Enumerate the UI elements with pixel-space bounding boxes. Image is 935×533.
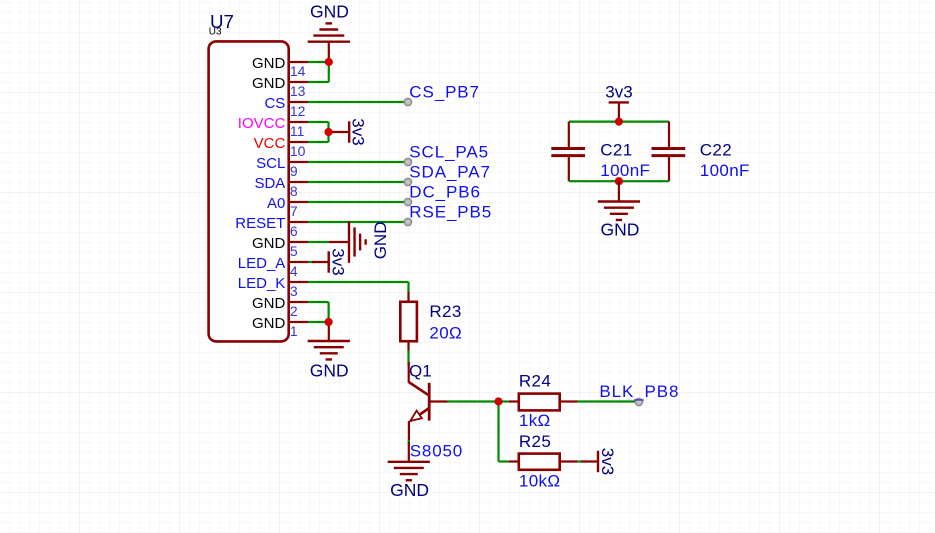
svg-text:VCC: VCC	[254, 135, 286, 152]
node SCL_PA5	[404, 142, 489, 165]
pin 13 GND	[252, 75, 308, 99]
svg-text:LED_A: LED_A	[238, 255, 286, 272]
svg-text:R24: R24	[519, 372, 551, 391]
wire pin2 GND	[308, 302, 329, 322]
wire pin14 to junction	[308, 61, 329, 63]
C22 value	[700, 161, 750, 180]
svg-text:SDA_PA7: SDA_PA7	[409, 162, 491, 181]
svg-text:CS: CS	[264, 95, 285, 112]
power 3v3 at LED_A	[312, 248, 348, 275]
svg-text:8: 8	[290, 183, 298, 199]
C21 designator	[600, 141, 632, 160]
svg-text:C22: C22	[700, 141, 732, 160]
pin 14 GND	[252, 55, 308, 79]
svg-text:GND: GND	[252, 295, 286, 312]
wire cap top rail	[569, 120, 669, 122]
svg-text:LED_K: LED_K	[238, 275, 286, 292]
R23 designator	[429, 302, 461, 321]
svg-text:RSE_PB5: RSE_PB5	[409, 202, 492, 221]
svg-text:RESET: RESET	[235, 215, 285, 232]
svg-text:3v3: 3v3	[598, 448, 617, 475]
R24 designator	[519, 372, 551, 391]
R25 designator	[519, 432, 551, 451]
C22 designator	[700, 141, 732, 160]
svg-text:CS_PB7: CS_PB7	[409, 82, 480, 101]
svg-text:100nF: 100nF	[600, 161, 650, 180]
svg-text:GND: GND	[390, 480, 429, 500]
svg-text:20Ω: 20Ω	[429, 323, 462, 342]
capacitor C21	[551, 122, 585, 182]
svg-text:GND: GND	[252, 75, 286, 92]
pin 12 CS	[264, 95, 308, 119]
node SDA_PA7	[404, 162, 491, 185]
C21 value	[600, 161, 650, 180]
wire Q1 base to junction	[447, 400, 499, 402]
transistor Q1	[409, 362, 448, 442]
resistor R24	[509, 394, 578, 411]
svg-text:1kΩ: 1kΩ	[519, 411, 551, 430]
node BLK_PB8	[599, 382, 679, 405]
junction cap bottom	[615, 177, 623, 185]
R23 value	[429, 323, 462, 342]
R24 value	[519, 411, 551, 430]
ground GND right symbol	[329, 221, 390, 263]
wire pin1 GND	[308, 321, 329, 323]
wire junction down to R25	[499, 402, 509, 462]
svg-text:7: 7	[290, 203, 298, 219]
wire RSE_PB5	[308, 221, 405, 223]
svg-text:11: 11	[290, 123, 305, 139]
wire R23 to Q1	[407, 351, 409, 366]
pin 2 GND	[252, 295, 308, 319]
wire SCL_PA5	[308, 161, 405, 163]
svg-text:GND: GND	[371, 222, 390, 260]
svg-text:1: 1	[290, 323, 298, 339]
svg-text:DC_PB6: DC_PB6	[409, 182, 481, 201]
svg-text:GND: GND	[252, 55, 286, 72]
svg-text:SCL: SCL	[256, 155, 285, 172]
wire IOVCC/VCC loop	[308, 122, 329, 142]
wire pin4 stub-green	[308, 261, 314, 263]
resistor R23	[400, 292, 417, 351]
pin 4 LED_A	[238, 255, 308, 279]
pin 3 LED_K	[238, 275, 308, 299]
svg-text:GND: GND	[252, 235, 286, 252]
svg-text:Q1: Q1	[409, 362, 432, 381]
power 3v3 top	[605, 83, 632, 122]
pin 11 IOVCC	[238, 115, 308, 139]
svg-text:R25: R25	[519, 432, 551, 451]
svg-text:3v3: 3v3	[605, 83, 632, 102]
svg-text:SCL_PA5: SCL_PA5	[409, 142, 489, 161]
node CS_PB7	[404, 82, 480, 105]
pin 9 SCL	[256, 155, 308, 179]
node DC_PB6	[404, 182, 481, 205]
svg-text:4: 4	[290, 263, 298, 279]
svg-text:GND: GND	[252, 315, 286, 332]
svg-text:9: 9	[290, 163, 298, 179]
wire R25 to 3v3	[578, 460, 583, 462]
svg-text:S8050: S8050	[410, 442, 463, 461]
power 3v3 at IOVCC	[329, 118, 368, 145]
svg-text:U3: U3	[209, 27, 222, 38]
wire SDA_PA7	[308, 181, 405, 183]
IC U7 body	[209, 41, 289, 341]
Q1 designator	[409, 362, 432, 381]
wire R24 to BLK_PB8	[578, 400, 635, 402]
svg-text:10kΩ: 10kΩ	[519, 472, 561, 491]
svg-text:3v3: 3v3	[349, 118, 368, 145]
svg-text:SDA: SDA	[254, 175, 285, 192]
ground GND below caps	[598, 181, 640, 240]
svg-text:2: 2	[290, 303, 298, 319]
junction IOVCC/VCC	[324, 128, 332, 136]
svg-text:3: 3	[290, 283, 298, 299]
junction cap top	[615, 118, 623, 126]
wire pin5 GND	[308, 241, 329, 243]
svg-text:13: 13	[290, 83, 306, 99]
svg-text:IOVCC: IOVCC	[238, 115, 286, 132]
svg-text:6: 6	[290, 223, 298, 239]
ground GND below Q1	[388, 442, 430, 500]
capacitor C22	[652, 122, 686, 182]
node RSE_PB5	[404, 202, 492, 225]
wire CS	[308, 101, 405, 103]
R25 value	[519, 472, 561, 491]
junction pin14	[325, 58, 333, 66]
Q1 value S8050	[410, 442, 463, 461]
wire pin13 run	[308, 62, 329, 82]
pin 7 A0	[267, 195, 308, 219]
svg-text:10: 10	[290, 143, 306, 159]
svg-text:GND: GND	[601, 220, 640, 240]
wire cap bottom rail	[569, 180, 669, 182]
svg-text:100nF: 100nF	[700, 161, 750, 180]
junction Q1 base node	[494, 397, 502, 405]
svg-text:A0: A0	[267, 195, 285, 212]
svg-text:12: 12	[290, 103, 306, 119]
resistor R25	[509, 454, 578, 470]
wire LED_K	[308, 282, 409, 293]
pin 8 SDA	[254, 175, 308, 199]
pin 10 VCC	[254, 135, 308, 159]
ground GND top symbol	[308, 2, 350, 63]
svg-text:GND: GND	[310, 360, 349, 380]
ground GND below pins	[308, 322, 350, 380]
svg-text:R23: R23	[429, 302, 461, 321]
svg-text:C21: C21	[600, 141, 632, 160]
svg-text:GND: GND	[310, 2, 349, 22]
wire DC_PB6	[308, 201, 405, 203]
wire junction to R24	[499, 400, 509, 402]
svg-text:14: 14	[290, 63, 306, 79]
U7 designator label	[210, 11, 234, 32]
svg-text:5: 5	[290, 243, 298, 259]
junction pin1	[325, 318, 333, 326]
U3 sub label	[209, 27, 222, 38]
pin 5 GND	[252, 235, 308, 259]
power 3v3 at R25	[581, 448, 617, 475]
wire Q1 emitter to gnd	[408, 440, 410, 444]
pin 1 GND	[252, 315, 308, 339]
pin 6 RESET	[235, 215, 308, 239]
svg-text:3v3: 3v3	[329, 248, 348, 275]
svg-text:BLK_PB8: BLK_PB8	[599, 382, 679, 401]
